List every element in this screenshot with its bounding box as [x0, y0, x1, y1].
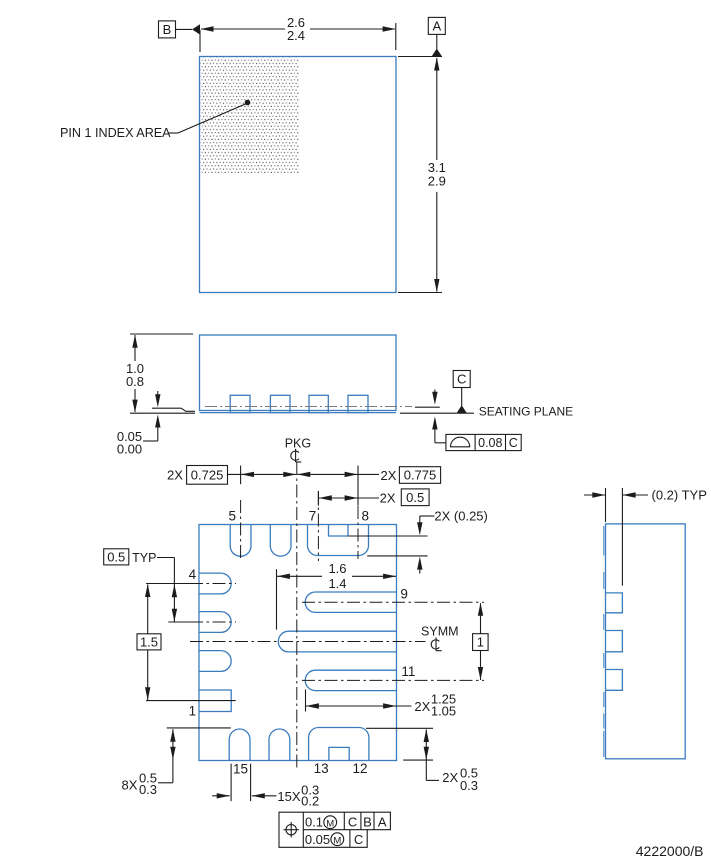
- svg-text:5: 5: [228, 509, 236, 524]
- svg-text:SEATING PLANE: SEATING PLANE: [479, 405, 573, 419]
- svg-text:TYP: TYP: [132, 551, 156, 565]
- svg-text:2.9: 2.9: [428, 174, 446, 189]
- svg-text:0.725: 0.725: [191, 467, 224, 482]
- svg-text:0.2: 0.2: [301, 794, 319, 809]
- svg-text:SYMM: SYMM: [421, 625, 459, 639]
- svg-text:2X (0.25): 2X (0.25): [434, 509, 487, 524]
- svg-text:13: 13: [314, 761, 329, 776]
- svg-text:0.08: 0.08: [478, 436, 502, 450]
- svg-text:9: 9: [400, 587, 408, 602]
- svg-text:A: A: [378, 815, 387, 830]
- svg-text:15: 15: [233, 762, 248, 777]
- svg-text:C: C: [348, 815, 357, 830]
- svg-text:1.5: 1.5: [140, 634, 158, 649]
- svg-text:0.5: 0.5: [406, 490, 424, 505]
- svg-text:15X: 15X: [277, 789, 300, 804]
- svg-text:PKG: PKG: [285, 436, 311, 450]
- svg-text:C: C: [354, 832, 363, 847]
- svg-text:0.1: 0.1: [305, 815, 323, 830]
- svg-text:0.5: 0.5: [107, 549, 125, 564]
- svg-text:2X: 2X: [442, 770, 458, 785]
- svg-text:2X: 2X: [414, 699, 430, 714]
- svg-text:M: M: [326, 818, 334, 829]
- svg-text:2.4: 2.4: [287, 28, 305, 43]
- svg-text:1.05: 1.05: [431, 703, 456, 718]
- svg-text:1.4: 1.4: [328, 576, 346, 591]
- svg-text:12: 12: [352, 761, 367, 776]
- svg-text:11: 11: [401, 664, 415, 679]
- svg-text:0.775: 0.775: [404, 468, 437, 483]
- svg-text:PIN 1 INDEX AREA: PIN 1 INDEX AREA: [60, 126, 171, 140]
- svg-text:4: 4: [189, 567, 197, 582]
- svg-text:1: 1: [477, 635, 484, 650]
- svg-text:4222000/B: 4222000/B: [636, 843, 704, 857]
- svg-text:B: B: [363, 815, 372, 830]
- svg-text:(0.2) TYP: (0.2) TYP: [652, 488, 707, 503]
- svg-text:A: A: [432, 18, 441, 33]
- svg-text:8: 8: [361, 509, 369, 524]
- svg-text:1.6: 1.6: [328, 561, 346, 576]
- svg-text:1: 1: [189, 704, 197, 719]
- svg-text:2X: 2X: [380, 491, 396, 506]
- svg-text:C: C: [457, 372, 466, 387]
- svg-text:2X: 2X: [167, 467, 183, 482]
- svg-text:0.8: 0.8: [126, 374, 144, 389]
- svg-text:7: 7: [309, 509, 317, 524]
- svg-text:B: B: [163, 22, 172, 37]
- svg-text:M: M: [333, 835, 341, 846]
- svg-text:8X: 8X: [122, 777, 138, 792]
- svg-text:C: C: [509, 436, 518, 450]
- svg-text:0.3: 0.3: [460, 778, 478, 793]
- svg-text:0.05: 0.05: [305, 832, 330, 847]
- svg-text:2X: 2X: [381, 468, 397, 483]
- svg-text:0.3: 0.3: [139, 782, 157, 797]
- svg-text:0.00: 0.00: [117, 442, 142, 457]
